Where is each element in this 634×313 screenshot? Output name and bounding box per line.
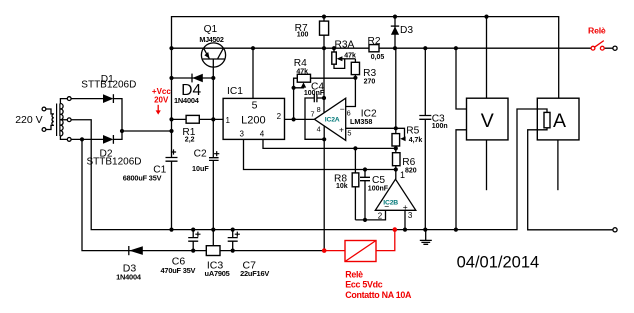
svg-text:MJ4502: MJ4502 [199, 35, 223, 44]
svg-text:47k: 47k [344, 52, 356, 59]
svg-text:+: + [339, 125, 344, 135]
svg-text:4,7k: 4,7k [409, 137, 423, 144]
svg-text:IC2A: IC2A [325, 116, 340, 123]
svg-text:Relè: Relè [588, 25, 606, 35]
svg-text:LM358: LM358 [350, 117, 372, 126]
svg-text:R6: R6 [402, 157, 415, 168]
svg-text:20V: 20V [154, 96, 169, 105]
svg-text:270: 270 [364, 78, 376, 85]
svg-text:Relè: Relè [345, 269, 363, 279]
svg-text:4: 4 [317, 125, 321, 134]
svg-text:4: 4 [260, 129, 265, 138]
svg-text:R3: R3 [363, 68, 376, 79]
svg-text:IC1: IC1 [227, 86, 243, 97]
svg-text:820: 820 [405, 167, 417, 174]
svg-text:10k: 10k [336, 183, 348, 190]
svg-text:A: A [553, 110, 566, 132]
svg-text:3: 3 [240, 129, 245, 138]
svg-text:Ecc 5Vdc: Ecc 5Vdc [345, 280, 383, 290]
svg-text:100nF: 100nF [304, 90, 325, 97]
svg-text:220 V: 220 V [15, 114, 42, 126]
svg-text:5: 5 [252, 100, 258, 112]
svg-text:470uF 35V: 470uF 35V [161, 266, 196, 275]
svg-text:100nF: 100nF [368, 185, 389, 192]
svg-text:STTB1206D: STTB1206D [87, 157, 142, 168]
svg-text:−: − [384, 201, 389, 211]
svg-text:2: 2 [378, 212, 383, 221]
svg-text:−: − [340, 104, 345, 114]
svg-text:6800uF 35V: 6800uF 35V [123, 174, 162, 183]
svg-text:uA7905: uA7905 [205, 269, 230, 278]
svg-text:Contatto NA 10A: Contatto NA 10A [345, 290, 412, 300]
svg-text:C5: C5 [372, 175, 385, 186]
svg-text:V: V [481, 110, 494, 132]
svg-text:22uF16V: 22uF16V [240, 269, 269, 278]
svg-text:2: 2 [277, 112, 282, 121]
svg-text:1: 1 [226, 116, 231, 125]
svg-text:C2: C2 [194, 149, 207, 160]
svg-text:100n: 100n [432, 123, 448, 130]
svg-text:47k: 47k [296, 68, 308, 75]
svg-text:R5: R5 [406, 125, 419, 136]
svg-text:R3A: R3A [335, 40, 355, 51]
svg-text:8: 8 [317, 105, 321, 114]
svg-text:1N4004: 1N4004 [116, 273, 142, 282]
svg-text:0,05: 0,05 [371, 54, 385, 61]
svg-text:2,2: 2,2 [185, 137, 195, 144]
svg-text:R2: R2 [368, 36, 381, 47]
svg-text:D3: D3 [400, 25, 413, 36]
svg-text:3: 3 [408, 211, 413, 220]
svg-text:10uF: 10uF [192, 164, 209, 173]
svg-text:1N4004: 1N4004 [174, 96, 200, 105]
svg-text:04/01/2014: 04/01/2014 [457, 253, 540, 271]
svg-text:L200: L200 [241, 114, 265, 126]
svg-text:STTB1206D: STTB1206D [81, 80, 136, 91]
svg-text:1: 1 [400, 170, 405, 180]
svg-text:Q1: Q1 [204, 24, 218, 35]
svg-text:7: 7 [311, 110, 315, 119]
svg-text:100: 100 [297, 32, 309, 39]
svg-text:6: 6 [347, 108, 351, 117]
svg-text:5: 5 [347, 129, 351, 138]
